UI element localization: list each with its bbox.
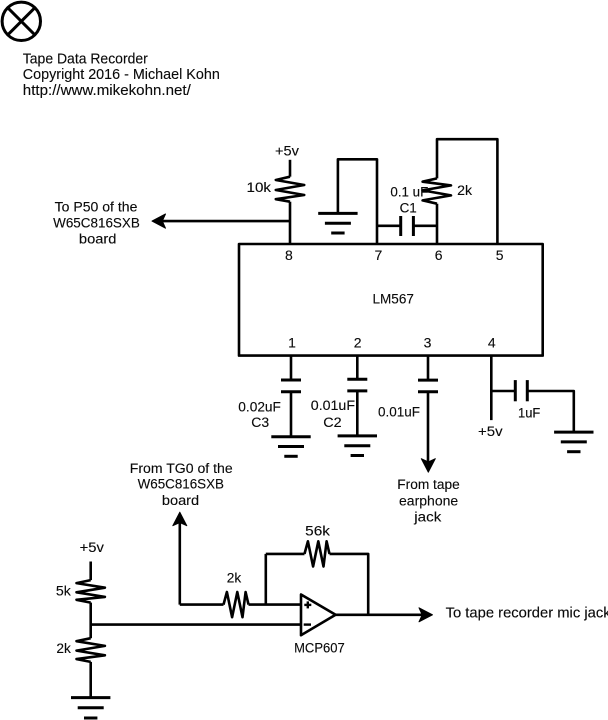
svg-text:1uF: 1uF: [518, 406, 540, 421]
svg-text:+5v: +5v: [275, 144, 299, 159]
svg-text:jack: jack: [413, 509, 441, 524]
wire pin 1 down: [290, 356, 293, 380]
wire 2k to op-amp plus input: [249, 603, 302, 606]
text From TG0 of the W65C816SXB board: [130, 461, 233, 508]
svg-text:+5v: +5v: [478, 424, 503, 439]
capacitor C3 0.02uF: [281, 380, 301, 392]
svg-text:http://www.mikekohn.net/: http://www.mikekohn.net/: [23, 82, 192, 99]
arrowhead up: [173, 512, 187, 526]
svg-text:W65C816SXB: W65C816SXB: [53, 216, 140, 231]
resistor R 2k (top): [423, 178, 451, 203]
svg-text:board: board: [162, 493, 199, 508]
wire C1 to pin6: [413, 225, 437, 228]
wire C2 to ground: [356, 391, 359, 436]
wire pin7 to C1: [377, 225, 401, 228]
svg-text:W65C816SXB: W65C816SXB: [138, 477, 224, 492]
svg-text:Tape Data Recorder: Tape Data Recorder: [23, 51, 148, 68]
svg-text:LM567: LM567: [373, 291, 415, 307]
wire pin 6 up: [436, 204, 439, 244]
wire 2k to ground: [89, 662, 92, 698]
wire pin 3 down: [427, 356, 430, 381]
wire node to op-amp minus input: [91, 623, 301, 626]
svg-text:From TG0 of the: From TG0 of the: [130, 461, 233, 476]
wire feedback top left: [266, 553, 305, 556]
svg-text:To tape recorder mic jack: To tape recorder mic jack: [446, 606, 608, 622]
text To P50 of the W65C816SXB board: [53, 199, 140, 246]
minus sign: [304, 623, 311, 625]
wire 5k to 2k: [89, 603, 92, 639]
wire to earphone jack arrow: [427, 392, 430, 462]
svg-text:2k: 2k: [457, 183, 472, 198]
IC U1 LM567: [239, 244, 543, 356]
wire feedback left vertical: [264, 554, 267, 605]
svg-text:+5v: +5v: [80, 540, 105, 555]
svg-text:56k: 56k: [305, 524, 330, 539]
svg-text:2k: 2k: [56, 641, 71, 656]
svg-text:0.01uF: 0.01uF: [311, 398, 355, 413]
ground G2: [271, 437, 310, 457]
svg-text:8: 8: [285, 247, 293, 263]
svg-text:Copyright 2016 - Michael Kohn: Copyright 2016 - Michael Kohn: [23, 66, 220, 83]
svg-text:5k: 5k: [56, 584, 71, 599]
capacitor 0.01uF (pin3): [418, 380, 438, 392]
svg-text:5: 5: [496, 247, 504, 263]
wire +5v to R 5k: [89, 562, 92, 581]
svg-text:0.01uF: 0.01uF: [378, 405, 420, 420]
svg-text:To P50 of the: To P50 of the: [55, 199, 138, 214]
svg-text:4: 4: [488, 335, 496, 351]
capacitor C1 0.1uF: [401, 216, 414, 236]
wire pin4 to 1uF: [491, 390, 515, 393]
svg-text:C2: C2: [323, 415, 341, 430]
wire 2k to pin 5: [437, 139, 497, 244]
svg-text:board: board: [79, 231, 117, 246]
svg-text:C3: C3: [251, 415, 269, 430]
wire feedback top right + right vertical to output: [330, 554, 369, 615]
svg-text:2k: 2k: [227, 571, 242, 586]
resistor R 5k: [77, 580, 105, 603]
svg-text:From tape: From tape: [397, 477, 460, 492]
wire C3 to ground: [290, 392, 293, 437]
svg-text:1: 1: [288, 335, 296, 351]
svg-text:0.02uF: 0.02uF: [238, 400, 281, 415]
svg-text:3: 3: [424, 335, 432, 351]
plus sign: [304, 601, 311, 608]
wire TG0 node to R 2k (mid): [180, 603, 224, 606]
arrowhead right: [419, 608, 433, 622]
wire TG0 arrow up: [179, 522, 182, 605]
svg-text:6: 6: [435, 247, 443, 263]
arrowhead left: [152, 214, 166, 228]
resistor R 10k: [276, 177, 304, 202]
wire arrow to P50: [162, 220, 290, 223]
ground G1: [318, 213, 357, 233]
logo crossed circle: [2, 2, 40, 40]
op-amp U2 MCP607: [301, 595, 336, 636]
wire pin 7 up: [338, 159, 377, 244]
title text: [23, 51, 220, 99]
text From tape earphone jack: [397, 477, 460, 524]
wire R10k to pin 8: [289, 202, 292, 244]
resistor R 2k (mid): [224, 592, 249, 617]
ground G4: [554, 432, 593, 452]
svg-text:0.1 uF: 0.1 uF: [390, 184, 428, 199]
arrowhead down: [421, 459, 435, 473]
wire 1uF to ground: [527, 391, 574, 432]
svg-text:2: 2: [354, 335, 362, 351]
wire op-amp output: [336, 613, 423, 616]
wire pin 2 down: [356, 356, 359, 380]
wire pin 4 down: [490, 356, 493, 421]
wire +5v to R 10k: [289, 160, 292, 177]
capacitor 1uF: [515, 380, 527, 401]
svg-text:earphone: earphone: [399, 494, 458, 509]
resistor R 2k (divider): [77, 638, 105, 662]
resistor R 56k: [305, 541, 330, 566]
svg-text:MCP607: MCP607: [294, 641, 345, 656]
svg-text:C1: C1: [400, 201, 417, 216]
svg-text:10k: 10k: [247, 180, 272, 195]
ground G5: [71, 698, 110, 718]
svg-text:7: 7: [375, 247, 383, 263]
capacitor C2 0.01uF: [347, 379, 367, 391]
ground G3: [338, 436, 377, 456]
